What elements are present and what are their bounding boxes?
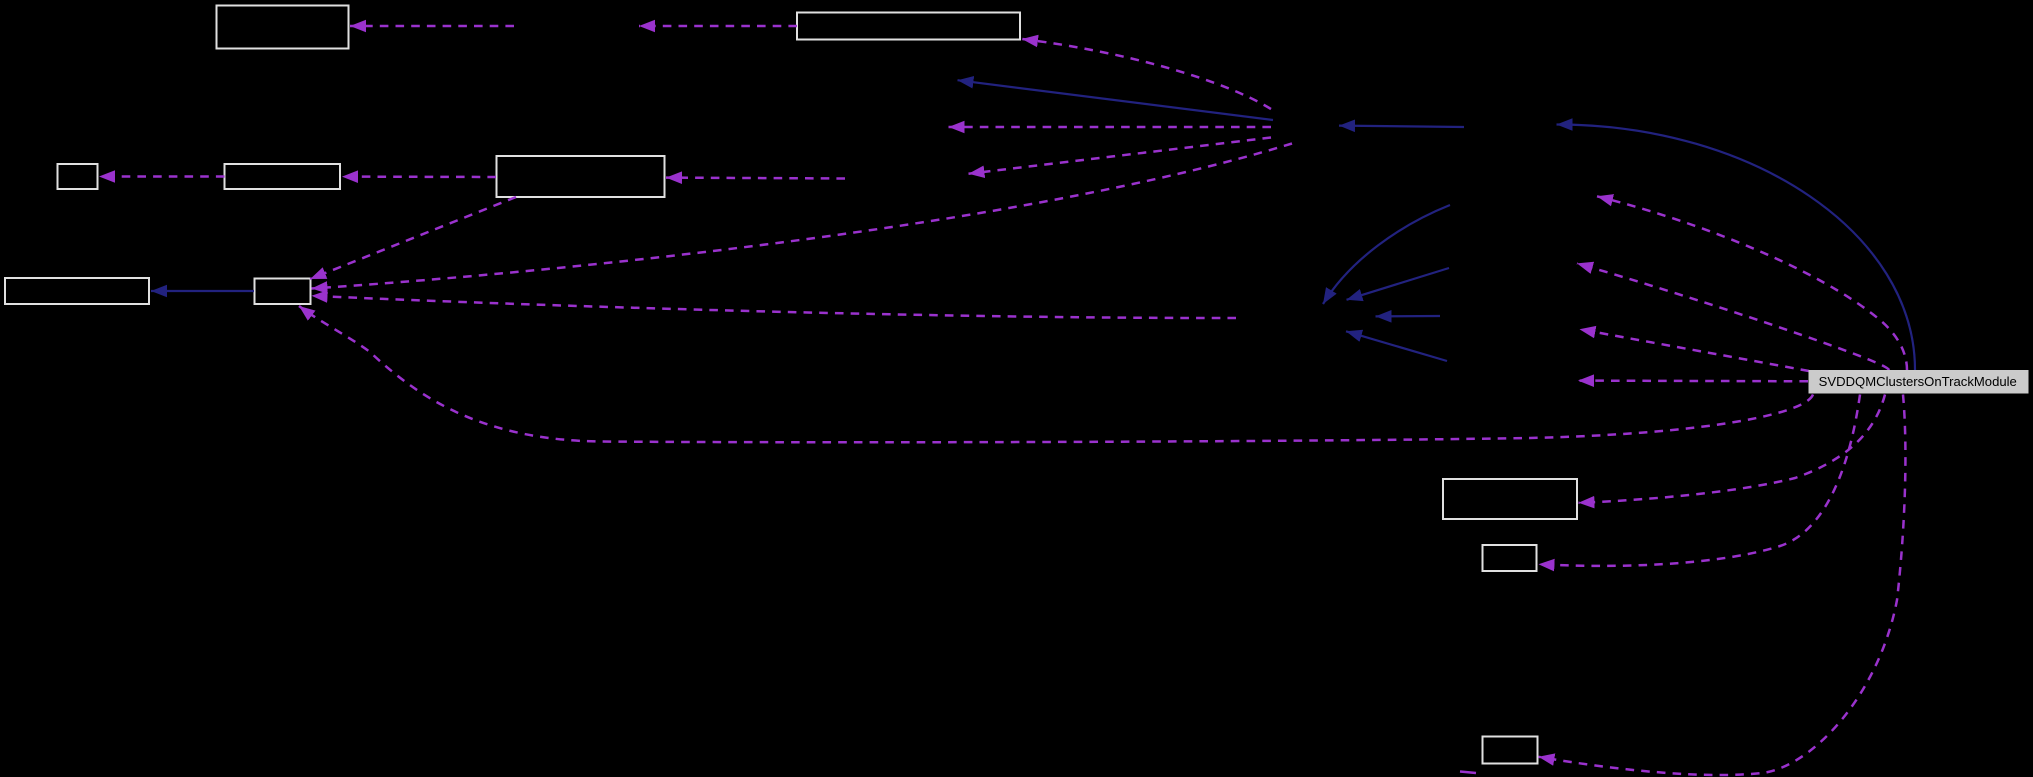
dashed edge: W5 to E bbox=[666, 176, 845, 179]
blue solid edge: Z to Y (horizontal) bbox=[1376, 315, 1441, 318]
dashed edge: K to J bbox=[1539, 395, 1906, 776]
dashed edge: X1 to hidden node W4 (horizontal y=127) bbox=[949, 126, 1272, 129]
dashed fan edge f1: K to hidden (tip 1596,196) bbox=[1597, 196, 1907, 370]
node box H bbox=[1443, 479, 1577, 519]
dashed edge: K to I bbox=[1539, 395, 1861, 566]
dashed edge: E to G (L1) bbox=[310, 197, 516, 279]
svg-text:SVDDQMClustersOnTrackModule: SVDDQMClustersOnTrackModule bbox=[1819, 374, 2017, 389]
blue solid edge: X2 to X1 bbox=[1339, 126, 1464, 127]
dashed edge: B to hidden node bbox=[639, 25, 797, 28]
node box E bbox=[497, 156, 665, 197]
node box B (top middle) bbox=[797, 13, 1020, 40]
dashed fan edge f4: K to hidden (horizontal tip 1577,380.5) bbox=[1578, 379, 1808, 382]
node box C (small, left) bbox=[58, 164, 98, 189]
dashed edge: E to D bbox=[342, 175, 496, 178]
dashed edge: K to H bbox=[1579, 395, 1886, 503]
dashed edge: D to C bbox=[99, 175, 225, 178]
blue solid edge: Z to Y (lower straight) bbox=[1346, 331, 1447, 361]
dashed stray dash near bottom left of J bbox=[1460, 772, 1476, 774]
dashed fan edge f3: K to hidden (tip 1578,329) bbox=[1580, 329, 1810, 371]
dashed edge: X1 to G (long curve L2) bbox=[312, 144, 1293, 289]
node box A (top left) bbox=[217, 6, 349, 49]
dashed edge: hidden node to A bbox=[350, 25, 514, 28]
dashed edge: K to G (L4 big sweep) bbox=[299, 306, 1813, 442]
blue solid edge: K to X2 (big arc) bbox=[1557, 125, 1916, 371]
node box G (small hub) bbox=[255, 279, 311, 305]
node box I bbox=[1483, 545, 1537, 571]
blue solid edge: G to F bbox=[151, 290, 254, 292]
node box D bbox=[225, 164, 341, 189]
dashed edge: hub X1 to B bottom-right corner bbox=[1022, 39, 1271, 109]
blue solid edge: hidden Z to Y (curved) bbox=[1323, 205, 1450, 304]
node box F (left, wide) bbox=[5, 278, 149, 304]
dashed edge: X1 to hidden node W5 bbox=[969, 138, 1272, 174]
node K: SVDDQMClustersOnTrackModule (highlighted) bbox=[1809, 370, 2029, 394]
dashed edge: hidden W6 to G (L3) bbox=[312, 296, 1237, 318]
node box J (bottom) bbox=[1483, 737, 1538, 764]
blue solid edge: Z to Y (upper straight) bbox=[1347, 268, 1450, 300]
blue solid edge: X1 to hidden W3 bbox=[958, 80, 1274, 120]
dashed fan edge f2: K to hidden (tip 1576,263) bbox=[1577, 263, 1889, 370]
